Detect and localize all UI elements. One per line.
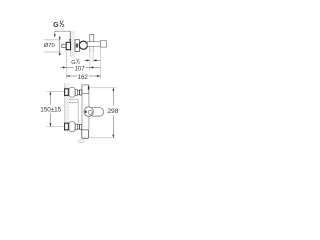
- dimension Ø70: [44, 36, 62, 55]
- inlet neck top: [80, 90, 82, 95]
- handle grip mark: [85, 110, 87, 113]
- svg-text:107: 107: [75, 67, 86, 73]
- svg-text:G: G: [53, 22, 59, 29]
- svg-text:150±15: 150±15: [40, 106, 61, 113]
- label G 1/2 (small, lower): [71, 58, 80, 66]
- union nut (side view): [66, 42, 70, 49]
- extension lines: [66, 47, 100, 78]
- svg-text:298: 298: [107, 108, 118, 115]
- handle inner circle: [88, 110, 92, 114]
- connector top: [75, 90, 77, 96]
- handle arm (stadium): [90, 108, 104, 116]
- dimension 107: [60, 66, 100, 72]
- in-wall pipe: [62, 44, 67, 47]
- handle round end: [84, 107, 93, 116]
- bottom outlet stub: [89, 46, 91, 52]
- svg-text:Ø70: Ø70: [44, 43, 55, 49]
- connector bottom: [75, 124, 77, 130]
- extension line bottom (150 dim): [46, 125, 64, 127]
- dimension 162: [66, 75, 100, 81]
- leader line for G 1/2: [54, 31, 71, 42]
- svg-text:2: 2: [78, 61, 80, 65]
- neck between escutcheon and handle: [80, 43, 81, 48]
- inlet neck bottom: [80, 124, 82, 129]
- dimension 298: [89, 88, 119, 138]
- escutcheon top (front): [69, 87, 75, 97]
- wall section (hatched): [65, 84, 70, 132]
- end cap of body: [100, 41, 106, 47]
- escutcheon (side view): [75, 40, 79, 52]
- outlet box at bottom: [82, 130, 89, 138]
- body column: [82, 93, 89, 129]
- body bar (side view): [88, 42, 101, 47]
- handle knob (circle, end-on): [79, 41, 87, 49]
- escutcheon bottom (front): [69, 122, 75, 132]
- small dimension at outlet (G 1/2): [84, 59, 101, 61]
- union nut top (front): [65, 89, 69, 96]
- svg-text:G: G: [71, 60, 75, 66]
- dark tick on cap: [88, 86, 90, 89]
- dimension 150±15: [40, 92, 61, 127]
- wall section (hatched): [71, 31, 75, 56]
- pipe run behind body: [69, 99, 78, 124]
- label G 1/2 (top, bold): [53, 19, 65, 29]
- nut behind escutcheon: [76, 44, 78, 48]
- union nut bottom (front): [65, 123, 69, 130]
- faint hose hint: [78, 140, 84, 143]
- svg-text:162: 162: [78, 75, 89, 81]
- extension line top (150 dim): [46, 91, 64, 93]
- top stub on body: [90, 34, 94, 41]
- body top cap: [82, 85, 89, 94]
